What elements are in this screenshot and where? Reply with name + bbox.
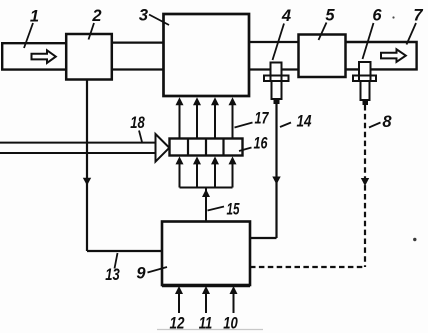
block 5 [299,35,346,78]
leader 15 [208,207,225,211]
leader 6 [363,23,374,59]
leader 4 [273,24,285,61]
scan speck near label 7 [392,16,394,18]
svg-text:15: 15 [227,201,241,219]
svg-text:6: 6 [372,7,382,25]
flow arrow inside pipe 7 [381,49,406,62]
pipe 1 (inlet duct) [2,43,66,69]
leader 17 [235,123,253,128]
svg-text:3: 3 [139,7,148,25]
svg-text:7: 7 [413,7,423,25]
svg-text:9: 9 [136,265,146,283]
block 2 [66,34,112,80]
injector 6 [353,62,376,105]
svg-text:18: 18 [130,114,145,132]
svg-text:2: 2 [91,7,101,25]
row of metering cells 16 [170,139,243,156]
pipe 18 (fuel supply line) [0,142,156,144]
wire 8 (dashed): block 9 to injector 6 [364,105,366,267]
flow arrow inside pipe 1 [32,50,56,63]
arrowhead of pipe 18 [156,134,170,162]
leader 8 [369,123,381,128]
leader 13 [115,253,118,269]
arrows 17: cells 16 to block 3 [176,97,237,138]
injector 4 [264,63,289,105]
wire 13: block 2 to block 9 [86,80,88,252]
leader 9 [148,267,168,273]
scan speck right side [413,238,416,241]
pipe between 2 and 3 [112,41,164,43]
leader 14 [280,123,291,128]
leader 5 [319,23,327,41]
pipe 7 (outlet duct) [346,42,417,69]
block 3 [164,14,250,96]
svg-text:4: 4 [281,7,291,25]
svg-text:14: 14 [297,113,312,131]
leader 18 [139,131,142,143]
input arrows 12 11 10 into block 9 [175,286,238,313]
svg-text:16: 16 [254,135,269,153]
leader lines [24,15,416,273]
arrows: bus to cells 16 [176,156,237,187]
leader 16 [239,148,252,152]
wire 14: block 9 to injector 4 [275,104,277,238]
svg-text:5: 5 [325,7,335,25]
svg-text:13: 13 [105,266,120,284]
leader 1 [24,23,33,48]
leader 2 [89,23,95,40]
pipe between 3 and 5 [249,41,299,43]
distribution bus [180,187,233,189]
svg-text:17: 17 [255,110,270,128]
block 9 [162,222,250,286]
svg-text:8: 8 [382,113,392,131]
leader 7 [407,23,417,45]
wire 15: block 9 to bus [205,188,207,222]
svg-text:1: 1 [30,8,39,26]
leader 3 [149,15,169,26]
faint scan rule under bottom labels [157,329,263,331]
